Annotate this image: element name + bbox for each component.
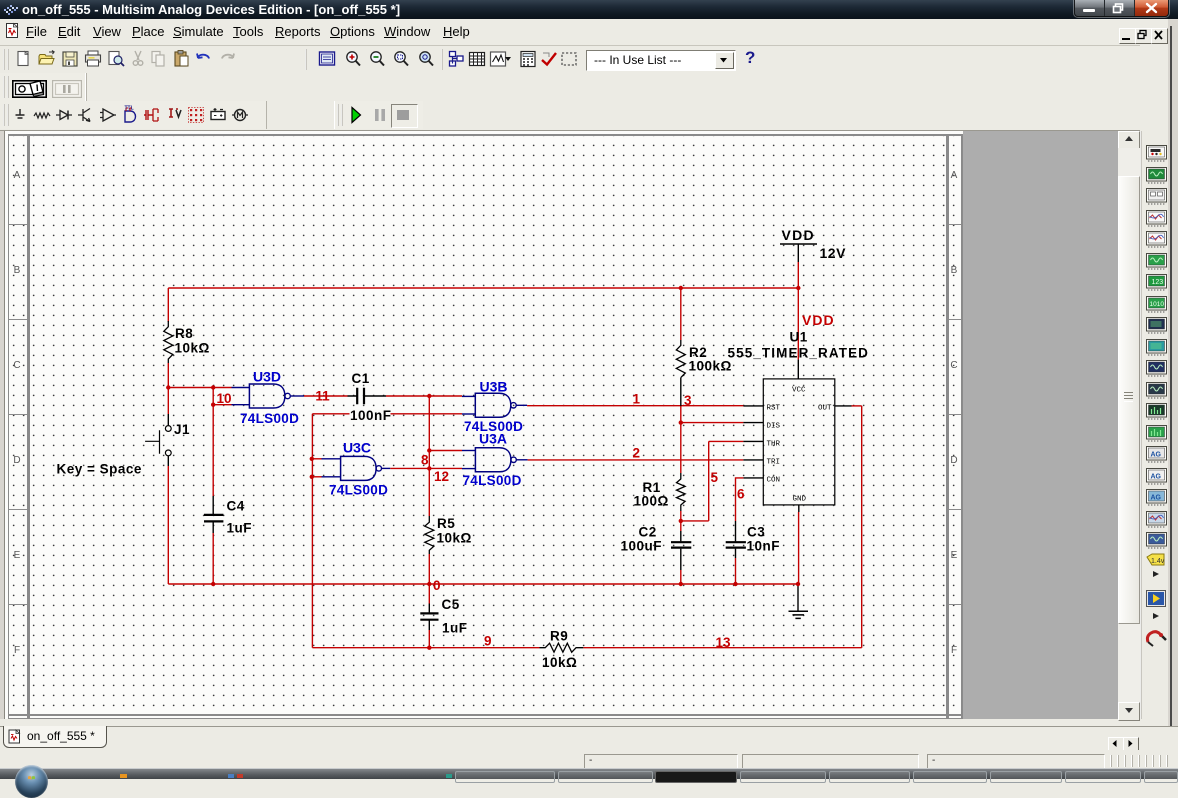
resistor R2 body [676,340,685,378]
wire net 2 U3A out to TRI [528,459,744,461]
capacitor C4 body [204,496,223,533]
label VDD symbol [782,227,815,243]
wire R2 bottom lead [680,378,682,406]
svg-text:10kΩ: 10kΩ [175,341,210,356]
net label 0 [433,578,441,593]
label J1 key [57,462,142,477]
label R5 designator [437,516,455,531]
svg-text:555_TIMER_RATED: 555_TIMER_RATED [728,346,870,361]
svg-text:6: 6 [737,487,745,502]
row ticks left [8,224,28,225]
wire net 11 U3D out to C1 [304,395,348,397]
svg-text:C5: C5 [442,597,460,612]
wire R5 to net 0 [428,554,430,584]
net label 12 [434,469,449,484]
label U3C designator [343,440,371,456]
label C4 designator [227,499,245,514]
label U3D designator [253,369,281,385]
svg-text:12: 12 [434,469,449,484]
svg-text:2: 2 [633,445,641,460]
NAND gate U3D body [249,384,290,408]
svg-text:U3B: U3B [480,379,508,395]
svg-text:100Ω: 100Ω [634,494,669,509]
stop (framed) [391,104,418,128]
label C1 designator [352,371,370,386]
label R8 value [175,341,210,356]
junction U3C input B [310,475,314,479]
junction node 10 left [166,385,170,389]
net label VDD red [802,312,835,328]
junction net 8 C1 U3B [427,394,431,398]
svg-text:8: 8 [421,453,429,468]
play [348,106,368,124]
label R1 value [634,494,669,509]
svg-text:VCC: VCC [792,387,806,395]
wire to U3D input B [213,404,231,406]
wire DIS junction to R1 [680,423,682,473]
svg-text:9: 9 [484,634,492,649]
wire VDD symbol stem [797,245,799,263]
svg-text:1uF: 1uF [227,521,253,536]
capacitor C5 body [420,604,438,631]
wire net 0 to C5 [428,584,430,604]
net label 11 [315,389,330,404]
svg-text:10kΩ: 10kΩ [437,531,472,546]
junction VDD rail R2 [679,286,683,290]
net label 1 [633,391,641,406]
net label 10 [217,391,232,406]
label C2 designator [639,525,657,540]
wire net 6 CON to C3 [736,478,744,521]
wire R1 to junction 5 [680,511,682,521]
svg-text:U1: U1 [790,330,808,345]
wire DIS pin stub [743,422,763,424]
IC U1 555 timer body [763,379,835,505]
wire VDD rail to R2 [680,288,682,340]
wire C2 to net 0 [680,570,682,584]
label VDD value 12V [820,245,847,261]
wire node 10 down to C4 [212,405,214,496]
net label 3 [684,393,692,408]
svg-text:10: 10 [217,391,232,406]
wire C3 to net 0 [735,558,737,584]
svg-text:AG: AG [1151,473,1162,480]
wire C1 right to junction [386,395,429,397]
wire C5 to net 13 [428,630,430,648]
resistor R8 body [164,321,173,363]
label U3B value 74LS00D [464,419,523,434]
svg-text:74LS00D: 74LS00D [463,473,522,488]
wire U3B output stub [516,404,527,406]
svg-text:11: 11 [315,389,330,404]
wire net 12 vertical [311,414,313,648]
svg-text:C2: C2 [639,525,657,540]
label R9 designator [550,629,568,644]
wire R8 top lead segment [167,288,169,322]
wire node 10 to U3D input A [168,387,231,389]
svg-text:TTL: TTL [125,106,134,112]
svg-text:THR: THR [767,441,781,449]
junction net 8 U3A input A [427,448,431,452]
svg-text:74LS00D: 74LS00D [329,483,388,498]
power symbol VDD [780,243,817,245]
wire R8 bottom to node 10 [167,363,169,388]
wire net 5 vertical [708,441,710,521]
wire net 12 horizontal to U3B input B [312,413,462,415]
wire U3C output stub [382,467,391,469]
svg-text:TRI: TRI [767,459,781,467]
svg-text:AG: AG [1151,495,1162,502]
wire OUT to net 13 corner [852,405,862,407]
sheet border left outer [8,134,10,719]
net label 6 [737,487,745,502]
wire U3D output stub [291,395,304,397]
svg-text:5: 5 [711,470,719,485]
wire junction to C2 [680,521,682,531]
svg-text:AG: AG [1151,452,1162,459]
svg-text:100kΩ: 100kΩ [689,359,732,374]
wire net 8 U3C out to U3A input B [390,467,462,469]
sheet border left inner double [27,134,30,719]
wire U3C input B stub [322,476,341,478]
junction R1 net 5 [679,519,683,523]
wire net 0 to ground symbol [797,584,799,611]
junction net 0 GND [796,582,800,586]
sheet border right outer [961,134,963,719]
svg-text:DIS: DIS [767,423,781,431]
svg-text:CON: CON [767,477,781,485]
NAND gate U3B body [475,393,516,417]
wire junction to U3B input A [429,395,462,397]
svg-text:1: 1 [633,391,641,406]
wire net 5 horizontal bottom [681,520,709,522]
svg-text:13: 13 [716,635,732,650]
junction net 0 C2 [679,582,683,586]
wire U3B input A stub [462,395,475,397]
net label 8 [421,453,429,468]
svg-text:R9: R9 [550,629,568,644]
NAND gate U3C body [341,456,382,480]
sheet border right inner [946,134,949,719]
svg-text:GND: GND [793,496,807,504]
wire net 1 3 U3B out to RST [527,405,743,407]
wire net 9 bottom rail [312,647,539,649]
svg-text:1.4v: 1.4v [1151,558,1165,565]
svg-text:R5: R5 [437,516,455,531]
label C3 value [747,539,781,554]
NAND gate U3A body [475,448,516,472]
pause button (disabled) [52,80,82,98]
wire VDD stem red segment [797,262,799,288]
svg-text:74LS00D: 74LS00D [240,411,299,426]
wire VCC from VDD rail [797,288,799,360]
wire net 13 bottom rail [583,647,861,649]
wire CON pin stub [743,477,763,479]
svg-text:100uF: 100uF [621,539,663,554]
svg-text:U3A: U3A [479,430,507,446]
wire U3B input B stub [462,413,475,415]
wire to U3C input B [312,476,321,478]
net label 2 [633,445,641,460]
capacitor C2 body [671,531,691,570]
junction net 0 C4 [211,582,215,586]
wire U3D input B stub [232,404,250,406]
label C5 value [442,621,468,636]
resistor R5 body [425,516,434,554]
label R1 designator [643,480,661,495]
wire net 5 to THR [709,440,744,442]
label U3D value 74LS00D [240,411,299,426]
label U1 designator [790,330,808,345]
net label 13 [716,635,732,650]
wire U3A input B stub [462,468,475,470]
label R9 value [542,655,577,670]
junction DIS R2 R1 [679,420,683,424]
junction node 10 branch [211,385,215,389]
svg-text:U3C: U3C [343,440,371,456]
wire GND pin to net 0 [798,512,800,584]
wire U3D input A stub [232,387,250,389]
sheet border top [8,134,963,136]
letters [11,170,23,181]
label R5 value [437,531,472,546]
svg-text:1uF: 1uF [442,621,468,636]
svg-text:C4: C4 [227,499,245,514]
junction VDD rail VCC [796,286,800,290]
label U3B designator [480,379,508,395]
svg-text:C3: C3 [747,525,765,540]
label C2 value [621,539,663,554]
label U3C value 74LS00D [329,483,388,498]
svg-text:C1: C1 [352,371,370,386]
svg-text:J1: J1 [174,422,190,437]
svg-text:10kΩ: 10kΩ [542,655,577,670]
svg-text:3: 3 [684,393,692,408]
svg-text:RST: RST [767,405,781,413]
wire net 8 vertical [428,396,430,516]
junction net 0 R5 C5 [427,582,431,586]
wire J1 bottom to net 0 [167,466,169,584]
label C3 designator [747,525,765,540]
label R8 designator [175,326,193,341]
label U3A value 74LS00D [463,473,522,488]
wire R2 to DIS junction [680,406,682,423]
wire U3C input A stub [322,458,341,460]
wire VCC pin stub [797,360,799,380]
label R2 value [689,359,732,374]
svg-text:0: 0 [433,578,441,593]
svg-text:1010: 1010 [1150,301,1165,308]
wire THR pin stub [743,440,763,442]
svg-text:OUT: OUT [818,405,832,413]
pause [371,107,389,123]
wire node 10 to J1 [167,388,169,415]
wire GND pin stub [798,505,800,512]
switch J1 body [145,414,171,466]
wire net VDD top rail [168,287,798,289]
label R2 designator [689,345,707,360]
wire OUT pin stub [835,405,852,407]
svg-text:R8: R8 [175,326,193,341]
label C5 designator [442,597,460,612]
wire node 10 branch down [212,388,214,405]
MDI child window buttons [1119,28,1136,44]
wire TRI pin stub [743,459,763,461]
svg-text:100nF: 100nF [350,408,392,423]
wire to U3C input A [312,458,321,460]
wire net 0 bottom rail [168,583,798,585]
svg-text:U3D: U3D [253,369,281,385]
label C1 value [350,408,392,423]
wire U3A input A stub [462,450,475,452]
svg-text:VDD: VDD [802,312,835,328]
row ticks right [946,224,963,225]
svg-text:123: 123 [1152,279,1164,286]
wire net 13 vertical [861,406,863,648]
label J1 designator [174,422,190,437]
resistor R1 body [677,473,686,511]
label U3A designator [479,430,507,446]
net label 9 [484,634,492,649]
wire C4 to net 0 [212,533,214,584]
capacitor C3 body [726,521,746,558]
label U1 value [728,346,870,361]
rocker switch button (pressed) [12,151,14,153]
svg-text:Key = Space: Key = Space [57,462,142,477]
wire U3A output stub [516,459,527,461]
wire net DIS horizontal [681,422,744,424]
net label 5 [711,470,719,485]
In Use List combo [586,50,736,71]
svg-text:VDD: VDD [782,227,815,243]
resistor R9 body [540,643,584,652]
junction net 0 C3 [733,582,737,586]
wire RST pin stub [743,405,763,407]
ground symbol [789,611,809,618]
junction net 13 C5 [427,646,431,650]
junction net 8 U3C output [427,466,431,470]
sheet border bottom [8,714,963,716]
label C4 value [227,521,253,536]
svg-text:10nF: 10nF [747,539,781,554]
capacitor C1 body [348,388,387,405]
wire junction to U3A input A [429,450,462,452]
junction U3C input A [310,457,314,461]
junction node 10 lower [211,403,215,407]
svg-text:12V: 12V [820,245,847,261]
